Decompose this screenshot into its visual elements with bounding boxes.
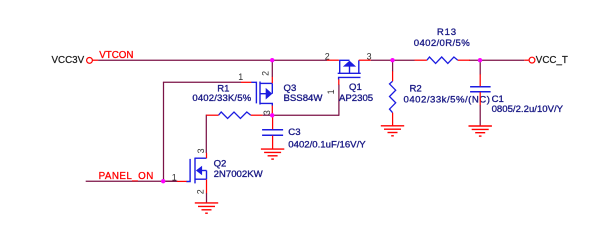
body arrow of Q2	[196, 166, 202, 175]
wire node A horizontal (Q3 drain to Q1 gate)	[272, 114, 339, 116]
svg-text:VTCON: VTCON	[99, 50, 133, 61]
wire PANEL_ON	[86, 180, 177, 182]
resistor R2	[390, 81, 396, 113]
body-source tie	[206, 171, 208, 180]
channel bar	[194, 158, 196, 184]
wire R2 stub	[392, 60, 394, 71]
svg-text:0402/33k/5%/(NC): 0402/33k/5%/(NC)	[404, 95, 491, 106]
gate pin L-bend	[251, 82, 256, 103]
svg-text:Q1: Q1	[349, 82, 362, 93]
gate pin L-bend	[186, 159, 190, 182]
svg-text:0402/0R/5%: 0402/0R/5%	[414, 38, 470, 49]
channel bar	[338, 72, 361, 74]
body-source tie	[271, 83, 273, 93]
body-source tie	[339, 59, 349, 61]
svg-text:VCC_T: VCC_T	[536, 55, 568, 66]
wire Q2 gate from node	[163, 180, 177, 182]
ground (Q2)	[195, 203, 218, 213]
wire left vertical (gate net)	[163, 82, 165, 181]
ground (C1)	[469, 126, 492, 136]
svg-text:AP2305: AP2305	[339, 93, 373, 104]
source rung (pin2)	[339, 60, 341, 73]
R2 pin leads	[392, 71, 394, 81]
wire Q1 gate vertical	[338, 84, 340, 116]
ground (C3)	[261, 149, 284, 159]
wire Q3 source stub	[271, 60, 273, 77]
svg-text:R2: R2	[410, 84, 422, 95]
drain rung (pin3)	[195, 157, 207, 159]
svg-text:3: 3	[196, 148, 206, 153]
Q1 pin red stubs	[327, 59, 339, 61]
resistor R1 pin leads	[206, 114, 218, 116]
C3 pin red stubs	[272, 117, 274, 130]
drain rung (pin3)	[358, 60, 360, 73]
svg-text:C3: C3	[288, 127, 300, 138]
svg-text:2: 2	[325, 51, 330, 61]
resistor R13	[427, 57, 458, 63]
wire C1 bottom stub	[479, 105, 481, 126]
wire rail (Q1 pin3 to R13)	[371, 59, 415, 61]
port VCC_T	[524, 59, 528, 61]
transistor Q3 BSS84W (P-MOSFET)	[251, 82, 272, 106]
drain rung (pin3)	[260, 103, 272, 105]
Q2 pin red stubs	[177, 180, 187, 182]
R13 pin leads	[415, 59, 427, 61]
svg-text:0402/0.1uF/16V/Y: 0402/0.1uF/16V/Y	[288, 139, 366, 150]
pin stub of port VCC3V	[92, 59, 98, 61]
wire R1 left to Q2 drain	[205, 115, 207, 153]
svg-text:1: 1	[172, 172, 177, 182]
channel bar	[259, 82, 261, 105]
svg-text:1: 1	[326, 89, 336, 94]
junction node dots	[270, 58, 274, 62]
resistor R1	[219, 112, 251, 118]
svg-text:PANEL_ON: PANEL_ON	[99, 171, 154, 182]
wire Q3 gate horizontal	[163, 81, 241, 83]
wire rail VTCON (VCC3V to Q1 pin2)	[98, 59, 327, 61]
svg-text:0402/33K/5%: 0402/33K/5%	[192, 93, 251, 104]
source rung (pin2)	[260, 82, 272, 84]
svg-text:0805/2.2u/10V/Y: 0805/2.2u/10V/Y	[492, 104, 564, 115]
transistor Q2 2N7002KW (N-MOSFET)	[186, 158, 206, 184]
wire Q2 source to ground	[206, 193, 208, 203]
svg-text:Q2: Q2	[214, 158, 227, 169]
body rung	[260, 93, 267, 95]
svg-text:R13: R13	[437, 27, 457, 38]
svg-text:2: 2	[195, 189, 205, 194]
C1 pin red stubs	[479, 74, 481, 86]
capacitor C3	[262, 130, 283, 136]
svg-text:1: 1	[238, 72, 243, 82]
ground (R2)	[381, 126, 404, 136]
Q3 pin red stubs	[241, 81, 251, 83]
svg-text:3: 3	[367, 51, 372, 61]
svg-text:VCC3V: VCC3V	[52, 55, 85, 66]
svg-text:2: 2	[261, 71, 271, 76]
body arrow of Q1	[343, 61, 356, 67]
source rung (pin2)	[195, 178, 207, 180]
wire rail (R13 to VCC_T)	[469, 59, 524, 61]
gate bar with bend	[339, 77, 361, 79]
body arrow of Q3	[266, 88, 273, 100]
body rung	[202, 170, 207, 172]
svg-text:2N7002KW: 2N7002KW	[214, 169, 264, 180]
capacitor C1	[470, 87, 491, 92]
svg-text:BSS84W: BSS84W	[284, 93, 324, 104]
body rung	[349, 66, 351, 73]
wire C1 top stub	[479, 60, 481, 74]
transistor Q1 AP2305 (P-MOSFET, leads up)	[338, 60, 361, 79]
